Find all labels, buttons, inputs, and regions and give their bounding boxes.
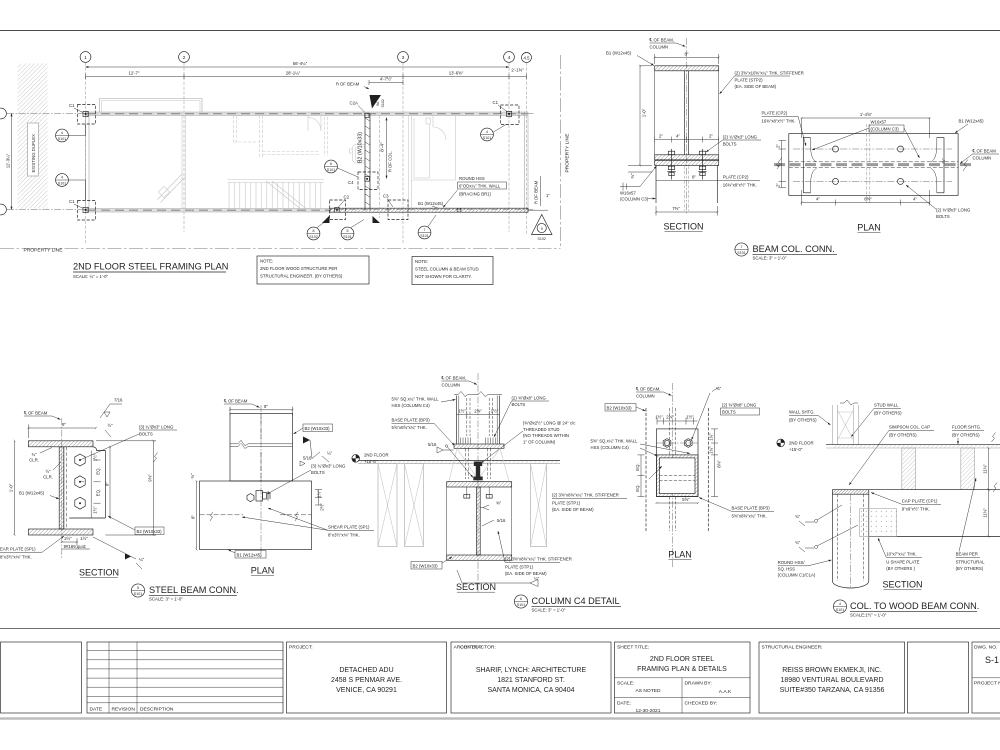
d4 u shape plate <box>860 509 897 537</box>
svg-text:1¾": 1¾" <box>709 433 714 441</box>
d6 cl of beam column label <box>441 376 478 388</box>
svg-text:SECTION: SECTION <box>456 582 496 592</box>
d5 right dim 9 5/8" <box>96 441 158 535</box>
svg-text:(EA. SIDE OF BEAM): (EA. SIDE OF BEAM) <box>505 571 547 576</box>
svg-text:SCALE: 3" = 1'-0": SCALE: 3" = 1'-0" <box>532 608 566 613</box>
d6 plan right dims <box>709 429 722 497</box>
svg-text:S102: S102 <box>381 99 385 107</box>
svg-text:STEEL COLUMN & BEAM STUD: STEEL COLUMN & BEAM STUD <box>415 267 479 272</box>
svg-text:¾": ¾" <box>795 540 801 545</box>
dim 8" top <box>655 52 719 65</box>
plate CP2 hatched <box>655 160 719 165</box>
grid bubble A <box>0 204 6 215</box>
svg-text:(COLUMN C1/C1A): (COLUMN C1/C1A) <box>778 573 816 578</box>
svg-text:(COLUMN C3): (COLUMN C3) <box>871 127 900 132</box>
svg-text:BASE PLATE (BP3): BASE PLATE (BP3) <box>732 506 771 511</box>
svg-text:13'-6⅝": 13'-6⅝" <box>449 71 464 76</box>
svg-text:5⅝": 5⅝" <box>682 497 690 502</box>
svg-text:DESCRIPTION: DESCRIPTION <box>140 707 174 713</box>
dim 8" plate below <box>692 175 696 180</box>
svg-text:CHECKED BY:: CHECKED BY: <box>685 701 718 707</box>
svg-text:ROUND HSS: ROUND HSS <box>459 176 485 181</box>
d5 bolts hex <box>75 454 85 509</box>
d5 half dim <box>105 423 113 437</box>
title block: structural engineer box <box>759 642 905 713</box>
svg-text:PLATE (CP2): PLATE (CP2) <box>723 175 749 180</box>
svg-text:(EA. SIDE OF BEAM): (EA. SIDE OF BEAM) <box>552 507 594 512</box>
section title <box>663 222 703 232</box>
svg-text:5/16: 5/16 <box>303 456 312 461</box>
svg-text:U SHAPE PLATE: U SHAPE PLATE <box>886 560 919 565</box>
svg-text:REISS BROWN EKMEKJI, INC.: REISS BROWN EKMEKJI, INC. <box>782 667 882 674</box>
svg-text:2: 2 <box>183 55 186 61</box>
d6 weld marks web <box>481 501 506 527</box>
d4 cap plate label <box>871 493 941 512</box>
svg-text:9⅝": 9⅝" <box>148 474 153 482</box>
dim 1'-0" left <box>628 66 652 166</box>
svg-text:EAR PLATE (SP1): EAR PLATE (SP1) <box>0 547 36 552</box>
svg-text:℄ OF BEAM,: ℄ OF BEAM, <box>441 376 467 381</box>
svg-text:S102: S102 <box>309 235 317 239</box>
svg-text:(2) 3⅝"x8⅝"x¼" THK. STIFFENER: (2) 3⅝"x8⅝"x¼" THK. STIFFENER <box>505 557 572 562</box>
d5 plan shear plate label <box>242 508 374 538</box>
svg-text:2½": 2½" <box>320 503 325 511</box>
svg-text:4": 4" <box>816 197 820 202</box>
dim 4'-7 1/2" <box>369 77 403 86</box>
grid line 3 <box>402 63 404 244</box>
d6 plan title <box>668 550 692 560</box>
building bottom wall gray portion <box>86 209 331 213</box>
svg-text:4": 4" <box>913 197 917 202</box>
d6 detail title <box>514 595 621 613</box>
d5 small dims right of bolts <box>93 453 101 513</box>
svg-text:1821 STANFORD ST.: 1821 STANFORD ST. <box>497 677 565 684</box>
svg-text:(BY OTHERS ): (BY OTHERS ) <box>886 566 915 571</box>
d4 section title <box>882 580 922 590</box>
svg-text:S101: S101 <box>836 608 844 612</box>
svg-text:99½"#189;9½"quot;: 99½"#189;9½"quot; <box>64 544 87 549</box>
note box 2 <box>412 257 493 285</box>
svg-text:6: 6 <box>330 162 332 166</box>
svg-text:4: 4 <box>61 131 63 135</box>
svg-text:HSS (COLUMN C4): HSS (COLUMN C4) <box>392 403 431 408</box>
d5 detail title <box>131 584 238 602</box>
plan bolt centerlines <box>793 148 952 150</box>
column C3 label <box>620 191 656 202</box>
svg-text:B1 (W12x45): B1 (W12x45) <box>959 119 985 124</box>
dim 7 7/8 bottom <box>656 206 717 216</box>
svg-text:S101: S101 <box>483 136 491 140</box>
svg-text:EQ.: EQ. <box>96 489 101 496</box>
d4 stud wall above <box>832 400 858 445</box>
svg-text:STRUCTURAL ENGINEER:: STRUCTURAL ENGINEER: <box>762 645 823 651</box>
d5 small dims left <box>29 448 61 480</box>
svg-text:℄ OF BEAM: ℄ OF BEAM <box>223 399 248 404</box>
svg-text:6"ODx¼" THK. WALL: 6"ODx¼" THK. WALL <box>459 184 501 189</box>
grid line 4.5 <box>526 63 528 236</box>
sheet bottom gray edge <box>0 717 1000 719</box>
d5 bolt leader lines <box>80 434 139 460</box>
solid triangle marker left <box>322 216 330 224</box>
svg-text:⅜": ⅜" <box>941 158 946 164</box>
d6 beam B2 below <box>447 482 512 561</box>
svg-text:HSS (COLUMN C4): HSS (COLUMN C4) <box>591 445 630 450</box>
svg-text:BEAM COL. CONN.: BEAM COL. CONN. <box>753 244 835 254</box>
svg-text:2⅝": 2⅝" <box>474 409 482 414</box>
stairs <box>228 180 325 209</box>
d6 B2 boxed label <box>411 557 452 569</box>
svg-text:1: 1 <box>84 55 87 61</box>
dim row 12'-7 / 28'-1 1/4 / 13'-6 5/8 / 2'-1 5/8 <box>86 68 527 80</box>
grid bubble 4.5 <box>522 53 532 63</box>
d6 threaded stud label <box>481 421 576 464</box>
d4 floor line <box>826 445 1000 448</box>
column C3 <box>383 194 408 220</box>
svg-text:8": 8" <box>105 482 110 486</box>
svg-text:DWG. NO.: DWG. NO. <box>974 645 997 651</box>
svg-text:NOT SHOWN FOR CLARITY.: NOT SHOWN FOR CLARITY. <box>415 274 472 279</box>
svg-text:(2) 3⅝"x10⅝"x¼" THK. STIFFENER: (2) 3⅝"x10⅝"x¼" THK. STIFFENER <box>735 71 804 76</box>
sheet bottom border line above title block <box>0 628 1000 630</box>
cl of col dashed line <box>379 116 381 219</box>
dim 8'-4" vertical <box>380 118 387 179</box>
svg-text:PROPERTY LINE: PROPERTY LINE <box>24 248 64 254</box>
d5 bottom dims <box>62 536 90 549</box>
column C4 <box>348 172 378 190</box>
svg-text:THREADED STUD: THREADED STUD <box>523 427 560 432</box>
svg-text:1¾": 1¾" <box>709 446 714 454</box>
column C1 top left <box>69 103 96 124</box>
title block: sheet title box <box>615 642 751 714</box>
svg-text:ℏ OF BEAM: ℏ OF BEAM <box>534 180 539 204</box>
svg-text:CLR.: CLR. <box>43 475 53 480</box>
d5 plan B1 boxed label <box>228 550 266 559</box>
title block: dwg no box <box>972 642 1000 713</box>
d6 hss column above <box>454 392 502 445</box>
beam B2 (W10x33) vertical <box>365 114 370 211</box>
svg-text:(2) ⅜"Øx3" LONG: (2) ⅜"Øx3" LONG <box>936 208 971 213</box>
svg-text:BOLTS: BOLTS <box>722 410 736 415</box>
building top wall <box>86 112 529 116</box>
svg-text:⅜": ⅜" <box>190 473 195 479</box>
d6 floor line <box>358 461 560 464</box>
svg-text:(NO THREADS WITHIN: (NO THREADS WITHIN <box>523 433 569 438</box>
d5 cl of beam label <box>23 411 61 420</box>
svg-text:7: 7 <box>424 228 426 232</box>
sheet top border line <box>0 30 1000 32</box>
d5 plan cl of beam <box>223 399 260 408</box>
d5 section title <box>79 568 119 578</box>
svg-text:FLOOR SHTG.: FLOOR SHTG. <box>952 425 981 430</box>
d6 bolts label <box>494 396 549 438</box>
svg-text:(BY OTHERS): (BY OTHERS) <box>952 433 980 438</box>
marker 9A/S102 flag <box>370 95 386 109</box>
beam B1 (W12x45) bottom hatched <box>330 208 528 212</box>
d6 plan weld flag top <box>692 386 722 440</box>
column C2 <box>330 195 350 220</box>
svg-text:℄ OF BEAM: ℄ OF BEAM <box>23 411 48 416</box>
d6 plan bottom dim <box>656 497 698 503</box>
d6 center bolt assembly <box>472 462 484 482</box>
svg-text:EQ.: EQ. <box>635 484 640 491</box>
d6 plan base plate <box>656 429 698 497</box>
d6 weld 5/16 <box>428 442 454 453</box>
svg-text:5⅝" SQ.x¼" THK. WALL: 5⅝" SQ.x¼" THK. WALL <box>591 439 639 444</box>
plan plate cp2 label <box>762 111 807 147</box>
svg-text:SHEAR PLATE (SP1): SHEAR PLATE (SP1) <box>328 525 370 530</box>
d5 plan weld right <box>303 437 333 463</box>
svg-text:8": 8" <box>692 175 696 180</box>
svg-text:½": ½" <box>107 423 113 428</box>
plan outer rect <box>789 134 958 196</box>
svg-text:B2 (W10x33): B2 (W10x33) <box>358 132 364 163</box>
dim 2 4 2 bolts <box>655 134 719 143</box>
svg-text:4: 4 <box>61 176 63 180</box>
svg-text:DATE: DATE <box>90 707 103 713</box>
existing duplex hatched strip <box>18 64 48 209</box>
svg-text:COLUMN: COLUMN <box>636 394 655 399</box>
svg-text:SANTA MONICA, CA 90404: SANTA MONICA, CA 90404 <box>487 687 574 694</box>
round hss bracing note <box>443 176 507 208</box>
d5 weld symbol top <box>100 398 123 419</box>
svg-text:B2 (W10x33): B2 (W10x33) <box>137 529 163 534</box>
svg-text:¼": ¼" <box>139 557 145 562</box>
interior closet walls <box>234 116 328 159</box>
plumbing curve <box>353 145 366 164</box>
dim 56'-4 1/4" <box>86 61 510 67</box>
svg-text:PLATE (STP2): PLATE (STP2) <box>735 78 764 83</box>
plan hidden beam center dashes <box>774 162 971 168</box>
cl of beam rotated right <box>528 176 550 210</box>
svg-text:SIMPSON COL. CAP: SIMPSON COL. CAP <box>889 425 930 430</box>
cl of beam column label <box>649 38 686 50</box>
d6 dims inside col <box>457 409 500 419</box>
title block: revision table <box>87 642 283 713</box>
svg-text:5: 5 <box>137 586 139 590</box>
svg-text:C3: C3 <box>383 194 389 199</box>
svg-text:COLUMN: COLUMN <box>973 156 992 161</box>
svg-text:8⅝": 8⅝" <box>864 197 872 202</box>
svg-text:ℏ OF COL.: ℏ OF COL. <box>388 151 393 172</box>
svg-text:12'-7": 12'-7" <box>129 71 140 76</box>
d5 plan 5/16 weld <box>300 456 312 467</box>
svg-text:B1 (W12x45): B1 (W12x45) <box>19 491 45 496</box>
svg-text:5⅝" SQ.x¼" THK. WALL: 5⅝" SQ.x¼" THK. WALL <box>392 397 440 402</box>
svg-text:SCALE: 3" = 1'-0": SCALE: 3" = 1'-0" <box>753 256 787 261</box>
svg-text:7: 7 <box>741 245 743 249</box>
plan column centerline vertical <box>867 124 870 203</box>
plan break symbols <box>777 158 782 170</box>
svg-text:DATE:: DATE: <box>617 701 631 707</box>
svg-text:(2) ¾"Øx3" LONG: (2) ¾"Øx3" LONG <box>723 135 758 140</box>
beam top flange <box>655 66 719 71</box>
svg-text:B2 (W10x33): B2 (W10x33) <box>413 563 439 568</box>
svg-text:S101: S101 <box>420 234 428 238</box>
bolt right <box>698 149 706 180</box>
svg-text:3: 3 <box>402 55 405 61</box>
svg-text:[⅜"Øx2½" LONG @ 24" c/c: [⅜"Øx2½" LONG @ 24" c/c <box>523 421 576 426</box>
d5 B1 label <box>19 491 59 500</box>
plan bottom dims <box>802 190 930 206</box>
svg-text:B1 (W12x45): B1 (W12x45) <box>237 552 263 557</box>
interior door arc <box>308 116 321 132</box>
svg-text:COL. TO WOOD BEAM CONN.: COL. TO WOOD BEAM CONN. <box>850 601 979 611</box>
svg-text:11⅜": 11⅜" <box>983 464 988 474</box>
svg-text:SHARIF, LYNCH: ARCHITECTURE: SHARIF, LYNCH: ARCHITECTURE <box>476 667 587 674</box>
svg-text:PROJECT:: PROJECT: <box>289 645 313 651</box>
svg-text:1" OF COLUMN): 1" OF COLUMN) <box>523 439 556 444</box>
d4 dim 11 7/8 bottom <box>983 490 989 537</box>
d4 wall shtg label <box>789 410 831 426</box>
svg-text:C2A: C2A <box>350 101 358 106</box>
plan title <box>73 262 228 280</box>
svg-text:SECTION: SECTION <box>663 222 703 232</box>
d4 weld symbol 2 <box>795 525 858 552</box>
column C2A <box>350 101 370 118</box>
d6 plan bolts label boxed <box>721 403 760 416</box>
svg-text:ℏ OF BEAM: ℏ OF BEAM <box>336 82 360 87</box>
title block: empty narrow box <box>908 642 969 713</box>
property line horizontal <box>0 248 561 254</box>
svg-text:1½": 1½" <box>458 409 466 414</box>
plan dim 1'-4 5/8 <box>802 112 930 138</box>
stiffener plate label <box>720 71 804 95</box>
plan right channel <box>931 138 944 193</box>
svg-text:REVISION: REVISION <box>112 707 136 713</box>
building upper room outline <box>100 99 203 113</box>
svg-text:C1: C1 <box>69 199 75 204</box>
d6 base plate <box>454 444 504 448</box>
svg-text:4": 4" <box>676 134 680 139</box>
svg-text:8": 8" <box>191 515 196 519</box>
interior right rooms <box>409 116 456 209</box>
svg-text:PLAN: PLAN <box>857 223 881 233</box>
svg-text:9"x9"x½" THK.: 9"x9"x½" THK. <box>902 507 930 512</box>
plan title text <box>857 223 881 233</box>
weld symbol left <box>620 166 657 191</box>
detail bubble 4/S101 left top <box>56 124 86 142</box>
d6 plan bolts <box>656 439 698 448</box>
svg-text:℄ OF BEAM: ℄ OF BEAM <box>972 149 997 154</box>
svg-text:7/16: 7/16 <box>114 398 123 403</box>
svg-text:PLAN: PLAN <box>668 550 692 560</box>
cl of beam label <box>336 82 369 90</box>
svg-text:1½": 1½" <box>93 506 98 514</box>
svg-text:8"x3½"x⅜" THK.: 8"x3½"x⅜" THK. <box>0 555 32 560</box>
svg-text:¼": ¼" <box>327 451 333 456</box>
d6 wood studs <box>378 464 547 547</box>
d5 dim 9" <box>29 422 97 438</box>
title block: project box <box>287 642 447 713</box>
d5 B2 boxed label <box>108 516 164 535</box>
svg-text:WALL SHTG.: WALL SHTG. <box>789 410 815 415</box>
svg-text:¼": ¼" <box>534 576 540 581</box>
svg-text:STEEL BEAM CONN.: STEEL BEAM CONN. <box>149 585 239 595</box>
d6 section title <box>456 582 496 592</box>
svg-text:12'-3¼": 12'-3¼" <box>6 153 11 168</box>
svg-text:S101: S101 <box>134 592 142 596</box>
svg-text:4: 4 <box>839 602 841 606</box>
d6 base plate label <box>392 418 455 446</box>
svg-text:SCALE:: SCALE: <box>617 681 634 687</box>
svg-text:5: 5 <box>347 229 349 233</box>
svg-text:S101: S101 <box>343 235 351 239</box>
building left wall <box>86 112 90 212</box>
svg-text:S102: S102 <box>537 237 545 241</box>
svg-text:C1: C1 <box>69 103 75 108</box>
plan left small dims <box>776 141 787 188</box>
svg-text:1½": 1½" <box>80 536 88 541</box>
svg-text:⅜": ⅜" <box>496 501 502 506</box>
d4 detail title <box>833 600 979 618</box>
d5 B2 beam end <box>69 447 105 518</box>
svg-text:SCALE: 3" = 1'-0": SCALE: 3" = 1'-0" <box>149 597 183 602</box>
note box 1 <box>257 256 369 284</box>
grid bubble 4 <box>504 52 515 63</box>
beam bottom flange <box>655 155 719 160</box>
svg-text:W16x57: W16x57 <box>620 191 636 196</box>
svg-text:(2) 3⅝"x8⅝"x¼" THK. STIFFENER: (2) 3⅝"x8⅝"x¼" THK. STIFFENER <box>552 493 619 498</box>
svg-text:¾": ¾" <box>795 514 801 519</box>
svg-text:2ND FLOOR STEEL: 2ND FLOOR STEEL <box>650 656 714 663</box>
svg-text:PLATE (CP2): PLATE (CP2) <box>762 111 788 116</box>
svg-text:(BY OTHERS): (BY OTHERS) <box>956 566 984 571</box>
beam B1 label <box>418 201 444 208</box>
detail bubble 4/S101 right <box>481 125 506 141</box>
svg-text:S101: S101 <box>58 137 66 141</box>
svg-text:+15'-0": +15'-0" <box>789 447 803 452</box>
svg-text:2ND FLOOR STEEL FRAMING PLAN: 2ND FLOOR STEEL FRAMING PLAN <box>73 262 228 272</box>
d6 plan stiffener label A <box>552 493 627 512</box>
svg-text:5⅝"x8⅝"x¾" THK.: 5⅝"x8⅝"x¾" THK. <box>732 514 767 519</box>
svg-text:4'-7½": 4'-7½" <box>380 77 393 82</box>
svg-text:8": 8" <box>685 52 689 57</box>
svg-text:VENICE, CA 90291: VENICE, CA 90291 <box>336 687 397 694</box>
beam web <box>685 71 689 155</box>
svg-text:56'-4¼": 56'-4¼" <box>293 61 308 66</box>
svg-text:(BY OTHERS): (BY OTHERS) <box>874 411 902 416</box>
column C1 bottom left <box>69 199 96 220</box>
plan left channel <box>803 138 816 193</box>
svg-text:18980 VENTURAL BOULEVARD: 18980 VENTURAL BOULEVARD <box>780 677 883 684</box>
svg-text:11⅜": 11⅜" <box>983 508 988 518</box>
d5 plan B2 rect <box>230 414 293 482</box>
svg-text:(EA. SIDE OF BEAM): (EA. SIDE OF BEAM) <box>735 84 777 89</box>
svg-text:2ND FLOOR WOOD STRUCTURE PER: 2ND FLOOR WOOD STRUCTURE PER <box>260 266 337 271</box>
svg-text:STUD WALL: STUD WALL <box>874 403 899 408</box>
svg-text:9A: 9A <box>376 101 380 106</box>
svg-text:DRAWN BY:: DRAWN BY: <box>685 681 712 687</box>
svg-text:2": 2" <box>709 134 713 139</box>
d6 plan B2 boxed label <box>605 404 646 412</box>
svg-text:8: 8 <box>313 229 315 233</box>
svg-text:1'-4⅝": 1'-4⅝" <box>860 112 873 117</box>
d4 u plate label <box>878 538 922 571</box>
svg-text:1½": 1½" <box>491 409 499 414</box>
svg-text:W16x57: W16x57 <box>871 120 887 125</box>
svg-text:S101: S101 <box>517 603 525 607</box>
d5 plan dim 8" <box>230 404 293 415</box>
svg-text:STRUCTURAL ENGINEER. (BY OTHER: STRUCTURAL ENGINEER. (BY OTHERS) <box>260 274 343 279</box>
title block: architect / contractor box <box>451 642 611 713</box>
d4 dim 11 7/8 top <box>983 433 996 490</box>
svg-text:8'-4": 8'-4" <box>380 142 386 152</box>
d6 bolt projection below plate <box>445 445 509 481</box>
svg-text:12-30-2021: 12-30-2021 <box>635 708 660 714</box>
svg-text:2ND FLOOR: 2ND FLOOR <box>789 441 814 446</box>
detail 7 title <box>735 243 837 261</box>
svg-text:B2 (W10x33): B2 (W10x33) <box>607 405 633 410</box>
